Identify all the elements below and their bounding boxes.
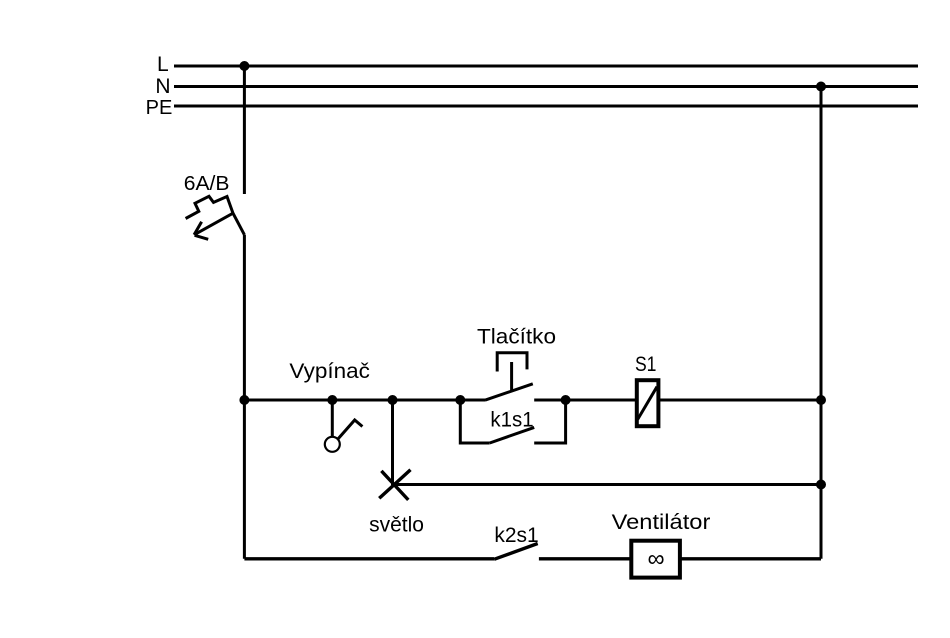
pushbutton contact blade <box>485 384 533 400</box>
switch Vypinac lever <box>338 420 363 439</box>
node right vertical main rail <box>816 395 826 405</box>
relay coil S1 box <box>637 380 659 426</box>
pushbutton stem <box>510 362 513 391</box>
svg-text:∞: ∞ <box>647 546 664 573</box>
svg-text:PE: PE <box>146 97 173 119</box>
wire k2s1 to ventilator box <box>539 557 631 560</box>
wire from L down to breaker <box>243 66 246 194</box>
wire L rail <box>174 65 918 68</box>
wire main rail left segment <box>244 399 485 402</box>
wire between blade and k1s1 right node <box>534 399 565 402</box>
contact k1s1 blade <box>490 427 535 443</box>
svg-text:N: N <box>155 75 170 98</box>
wire svetlo branch vertical <box>391 400 394 485</box>
switch Vypinac circle <box>325 437 340 452</box>
wire breaker to main rail <box>243 235 246 400</box>
lamp svetlo <box>379 470 410 500</box>
switch Vypinac stem <box>331 400 334 437</box>
svg-text:6A/B: 6A/B <box>184 173 230 195</box>
node vypinac tap <box>327 395 337 405</box>
svg-text:Vypínač: Vypínač <box>289 360 370 383</box>
node svetlo tap <box>388 395 398 405</box>
wire PE rail <box>174 105 918 108</box>
pushbutton cap bracket <box>497 353 527 372</box>
svg-text:k1s1: k1s1 <box>490 409 533 432</box>
wire left vertical down to bottom rail <box>243 400 246 559</box>
wire ventilator to right vertical <box>680 557 821 560</box>
node k1s1 left <box>455 395 465 405</box>
wire S1 to right vertical <box>660 399 821 402</box>
svg-text:L: L <box>157 53 169 76</box>
node junction on L <box>239 61 249 71</box>
svg-text:k2s1: k2s1 <box>494 524 538 547</box>
wire right vertical <box>820 87 823 559</box>
wire N rail <box>174 85 918 88</box>
node k1s1 right <box>561 395 571 405</box>
svg-text:Ventilátor: Ventilátor <box>612 511 711 534</box>
contact k1s1 right wire <box>534 400 565 443</box>
circuit breaker 6A/B <box>186 196 245 239</box>
relay coil S1 diagonal <box>638 387 657 420</box>
node lamp line right <box>816 480 826 490</box>
contact k1s1 left wire <box>460 400 489 443</box>
motor Ventilator box <box>631 541 680 578</box>
node main rail left <box>239 395 249 405</box>
svg-text:Tlačítko: Tlačítko <box>477 326 556 349</box>
wire k1s1 right to S1 <box>566 399 635 402</box>
wire lamp to right vertical <box>394 483 821 486</box>
svg-text:světlo: světlo <box>369 514 424 537</box>
contact k2s1 blade <box>494 544 538 560</box>
node junction on N <box>816 82 826 92</box>
wire bottom rail left segment <box>244 557 494 560</box>
svg-text:S1: S1 <box>635 353 657 376</box>
